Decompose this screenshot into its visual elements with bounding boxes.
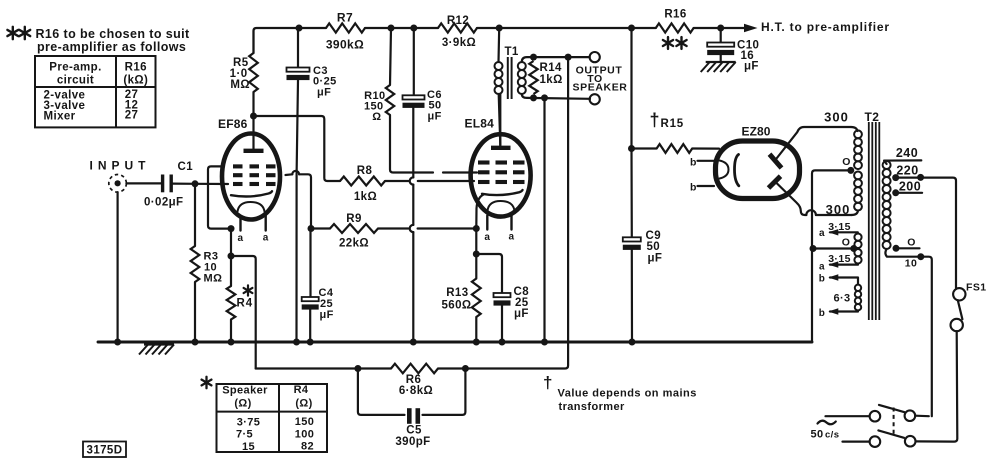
wire FS1 to switch [916, 331, 957, 441]
table: speaker R4 [202, 377, 327, 453]
svg-text:1kΩ: 1kΩ [540, 74, 563, 86]
svg-text:MΩ: MΩ [204, 273, 223, 285]
capacitor C4 lead [309, 229, 311, 298]
svg-text:μF: μF [317, 87, 331, 99]
capacitor C6 lead [413, 28, 415, 95]
svg-text:(Ω): (Ω) [234, 398, 251, 410]
transformer T2 heater winding 3.15 lower [819, 249, 862, 273]
svg-text:T1: T1 [505, 46, 519, 58]
table: pre-amp R16 values [35, 56, 156, 127]
capacitor C3 [297, 28, 299, 68]
transformer T2 core [869, 122, 880, 320]
EL84 heater [488, 201, 515, 211]
EF86 cathode [231, 191, 272, 196]
svg-text:R12: R12 [447, 15, 469, 27]
wire C1 to EF86 grid [173, 180, 228, 187]
EZ80 anode bottom [769, 176, 807, 215]
wire 240 tap [884, 146, 921, 161]
capacitor C9 [623, 230, 663, 342]
svg-text:390kΩ: 390kΩ [326, 38, 364, 52]
EL84 heater stub a2 [509, 215, 515, 243]
EZ80 cathode [735, 155, 739, 186]
svg-text:22kΩ: 22kΩ [339, 238, 369, 250]
svg-text:O: O [842, 237, 851, 249]
capacitor C8 [494, 286, 530, 342]
output terminal bottom [590, 94, 600, 104]
resistor R15 [632, 110, 720, 153]
capacitor C5 [358, 369, 466, 449]
wire 300 bottom hop [806, 210, 851, 215]
svg-text:R4: R4 [237, 298, 254, 310]
node rail junction dots [296, 25, 725, 32]
capacitor C4 [302, 287, 334, 342]
wire NFB to cathode branch [256, 367, 358, 369]
wire T1 secondary bottom [522, 94, 590, 99]
valve EL84 envelope [465, 117, 531, 217]
svg-text:R13: R13 [446, 287, 468, 299]
svg-text:200: 200 [899, 180, 921, 194]
node R15 branch [628, 145, 635, 152]
svg-text:R16 to be chosen to suit: R16 to be chosen to suit [36, 27, 191, 41]
svg-text:b: b [819, 308, 826, 319]
ground symbol chassis [139, 345, 174, 355]
svg-text:H.T. to pre-amplifier: H.T. to pre-amplifier [761, 20, 890, 34]
node EF86 cathode junction [228, 225, 235, 259]
svg-text:R15: R15 [661, 118, 685, 130]
EL84 grids [478, 163, 525, 183]
svg-text:1kΩ: 1kΩ [354, 191, 377, 203]
svg-text:Mixer: Mixer [44, 111, 76, 123]
svg-text:C1: C1 [178, 161, 194, 173]
ground symbol at C10 [701, 62, 736, 72]
transformer T2 heater winding 3.15 upper [819, 221, 862, 248]
node INPUT terminal [90, 159, 151, 193]
svg-text:FS1: FS1 [966, 282, 986, 294]
transformer T2 rectifier heater winding 6.3 [819, 274, 861, 320]
capacitor C1 [144, 161, 193, 209]
node T1 top wire dots [530, 54, 572, 61]
transformer T2 HT winding lower [826, 172, 862, 218]
wire secondary ground drop [543, 98, 545, 342]
wire 220 tap [892, 164, 956, 288]
node EL84 cathode junction [473, 225, 480, 258]
label 50 c/s [811, 421, 840, 441]
wire EL84 cathode to R13 [475, 229, 477, 255]
svg-text:220: 220 [896, 164, 918, 178]
svg-text:300: 300 [826, 202, 851, 217]
svg-text:15: 15 [242, 441, 255, 453]
wire cathode NFB branch [231, 256, 256, 369]
svg-text:b: b [690, 157, 697, 169]
svg-text:100: 100 [295, 429, 315, 441]
svg-text:R16: R16 [664, 9, 686, 21]
svg-text:300: 300 [824, 110, 849, 125]
svg-text:R7: R7 [337, 11, 353, 25]
svg-text:560Ω: 560Ω [441, 300, 471, 312]
resistor R3 [191, 183, 223, 342]
EF86 anode plate [244, 116, 264, 151]
svg-text:(kΩ): (kΩ) [123, 75, 148, 87]
wire 10 tap [885, 249, 931, 416]
label output to speaker [573, 65, 628, 94]
svg-text:transformer: transformer [559, 401, 625, 413]
svg-text:150: 150 [295, 416, 315, 428]
EL84 anode plate [491, 94, 511, 148]
transformer T1 core [508, 57, 512, 99]
wire EF86 anode to R8 (coupling) [254, 116, 341, 181]
svg-text:O: O [907, 237, 916, 249]
node screen junction [308, 225, 315, 232]
node R6 left [354, 365, 361, 372]
EZ80 heater [720, 161, 729, 179]
svg-text:3·15: 3·15 [828, 221, 851, 233]
svg-text:Speaker: Speaker [222, 385, 268, 397]
wire to C8 [476, 254, 502, 293]
EF86 heater [238, 202, 265, 212]
svg-text:6·3: 6·3 [833, 293, 850, 305]
svg-text:b: b [819, 274, 826, 285]
svg-text:3·9kΩ: 3·9kΩ [442, 37, 476, 49]
wire 0 tap [893, 237, 920, 252]
resistor R5 [230, 53, 258, 116]
svg-text:3·15: 3·15 [828, 253, 851, 265]
wire HT drop [630, 28, 632, 149]
svg-text:μF: μF [648, 253, 663, 265]
svg-text:C5: C5 [406, 425, 422, 437]
svg-text:†: † [543, 373, 553, 392]
transformer T2 HT winding upper [824, 110, 862, 170]
svg-text:390pF: 390pF [395, 436, 430, 448]
wire cathode to R4 [230, 229, 232, 256]
fuse FS1 [951, 282, 987, 332]
switch gang link [893, 408, 895, 437]
note: value depends [543, 373, 697, 413]
valve EZ80 envelope [716, 125, 800, 199]
resistor R8 [340, 165, 385, 203]
transformer T2 primary winding [883, 161, 891, 249]
node EF86 anode junction [250, 113, 257, 120]
resistor R13 [441, 254, 480, 342]
EZ80 heater lead b1 [690, 157, 714, 169]
svg-text:SPEAKER: SPEAKER [573, 82, 628, 94]
svg-text:circuit: circuit [57, 75, 94, 87]
wire T1 secondary top [522, 57, 590, 62]
EF86 screen lead to C4 node [286, 171, 312, 229]
svg-text:50: 50 [811, 429, 824, 441]
svg-text:c/s: c/s [825, 430, 839, 441]
svg-text:MΩ: MΩ [230, 79, 250, 91]
transformer T1 primary [495, 28, 519, 94]
svg-text:INPUT: INPUT [90, 159, 151, 173]
svg-text:a: a [819, 228, 825, 239]
wire ground rail [98, 341, 812, 344]
svg-text:a: a [509, 232, 515, 243]
wire T1 primary to EL84 anode [499, 94, 501, 145]
svg-text:O: O [842, 156, 851, 168]
capacitor C3 plates [287, 65, 337, 99]
wire HT centre tap to rail [812, 170, 851, 342]
svg-text:pre-amplifier as follows: pre-amplifier as follows [37, 40, 186, 54]
node ground rail dots [114, 339, 635, 346]
svg-text:7·5: 7·5 [236, 429, 253, 441]
svg-text:50: 50 [647, 241, 661, 253]
EL84 cathode [476, 190, 522, 229]
svg-text:EL84: EL84 [465, 117, 495, 131]
capacitor C10 [707, 40, 759, 73]
svg-text:μF: μF [320, 309, 334, 321]
svg-text:Value depends on mains: Value depends on mains [558, 388, 697, 400]
svg-text:(Ω): (Ω) [295, 398, 312, 410]
svg-text:Ω: Ω [372, 111, 381, 123]
wire rail R7 to R12 [365, 27, 438, 29]
svg-text:27: 27 [125, 110, 139, 122]
wire R8 to EL84 grid [385, 180, 474, 182]
node T2 HT centre tap [842, 156, 854, 174]
svg-text:EF86: EF86 [218, 117, 248, 131]
valve EF86 envelope [218, 117, 280, 220]
svg-text:R4: R4 [294, 384, 309, 396]
node T1 bottom wire dots [530, 94, 548, 101]
switch pole 2 [843, 430, 916, 447]
resistor R12 [438, 15, 477, 49]
svg-text:Pre-amp.: Pre-amp. [49, 62, 101, 74]
svg-text:3175D: 3175D [87, 445, 123, 457]
svg-text:a: a [238, 233, 244, 244]
svg-text:3·75: 3·75 [237, 417, 261, 429]
resistor R16 [656, 9, 694, 49]
svg-text:82: 82 [301, 441, 314, 453]
resistor R4 [227, 256, 254, 342]
resistor R14 [529, 61, 562, 94]
transformer T1 secondary [518, 62, 526, 94]
svg-text:10: 10 [905, 258, 917, 270]
capacitor C10 lead [720, 28, 722, 43]
EF86 heater stub a1 [238, 217, 244, 245]
resistor R10 [364, 28, 477, 173]
svg-text:T2: T2 [865, 110, 880, 124]
resistor R7 [326, 11, 365, 52]
svg-text:μF: μF [428, 111, 442, 123]
svg-text:a: a [484, 232, 490, 243]
node T2 heater centre tap [842, 237, 858, 253]
svg-text:a: a [263, 233, 269, 244]
wire input drop to ground rail [116, 192, 118, 342]
label 3175D [83, 442, 126, 458]
EL84 heater stub a1 [484, 216, 490, 244]
wire C6 to ground with hop crossings [410, 108, 414, 342]
wire 200 tap [892, 180, 922, 197]
svg-text:EZ80: EZ80 [742, 125, 771, 139]
svg-text:R9: R9 [346, 213, 362, 225]
svg-text:a: a [819, 262, 825, 273]
svg-text:†: † [650, 110, 660, 130]
svg-text:240: 240 [896, 146, 918, 160]
resistor R6 [358, 364, 466, 397]
capacitor C6 [403, 89, 442, 123]
svg-text:μF: μF [514, 308, 529, 320]
EZ80 anode top [770, 127, 852, 168]
note: R16 selection [7, 27, 190, 54]
EZ80 heater lead b2 [690, 182, 714, 194]
wire NFB from T1 to R6 [465, 57, 568, 368]
label T2 [865, 110, 880, 124]
wire heater CT to rail line [810, 245, 854, 252]
svg-text:0·02μF: 0·02μF [144, 197, 183, 209]
EF86 g3 lead to cathode node [208, 166, 231, 228]
svg-text:b: b [690, 182, 697, 194]
svg-text:6·8kΩ: 6·8kΩ [399, 385, 433, 397]
capacitor C9 lead [630, 149, 632, 238]
EF86 heater stub a2 [263, 216, 269, 244]
wire input to C1 [126, 182, 161, 184]
svg-text:R8: R8 [357, 165, 373, 177]
output terminal top [590, 52, 600, 62]
node R6 right [462, 365, 469, 372]
wire rail R12 to R16 [477, 27, 656, 29]
svg-text:R16: R16 [125, 62, 147, 74]
wire C3 to ground rail [297, 80, 299, 342]
svg-text:R14: R14 [540, 62, 563, 74]
svg-text:μF: μF [744, 61, 759, 73]
wire HT rail left segment [254, 28, 327, 53]
EF86 grids [233, 166, 276, 184]
switch pole 1 [826, 405, 929, 422]
wire rail to HT output arrow [694, 20, 890, 34]
resistor R9 [311, 213, 476, 250]
